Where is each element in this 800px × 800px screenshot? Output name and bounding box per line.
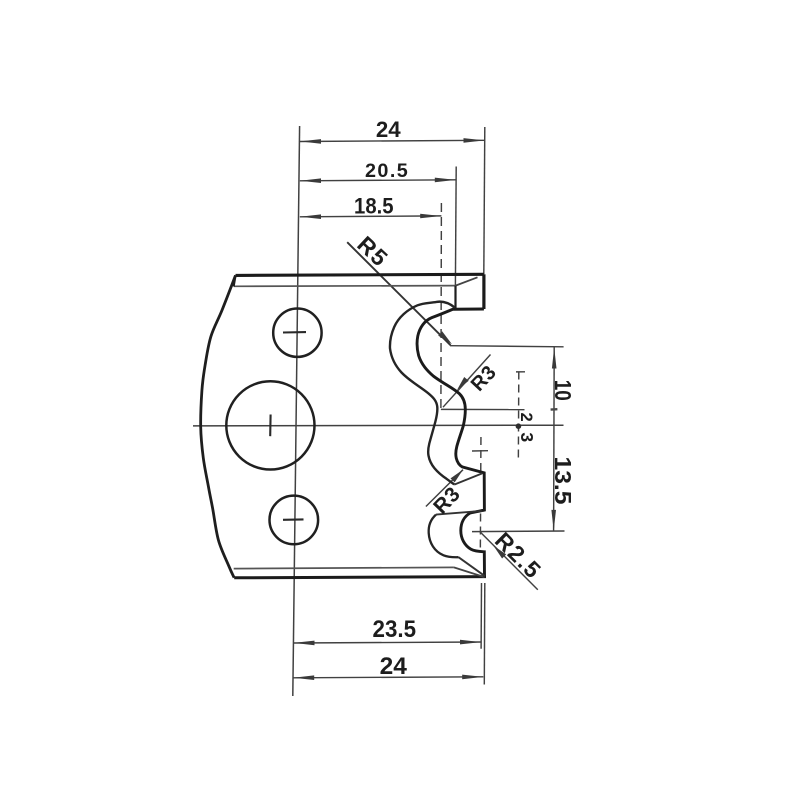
hole top circle: [273, 309, 321, 357]
svg-text:R3: R3: [467, 361, 501, 395]
node dot on centerline: [516, 423, 522, 429]
arrow dim 18.5 right: [420, 214, 441, 219]
profile back curve: [390, 302, 455, 485]
arrow leader R3 lower: [451, 470, 464, 483]
arrow leader R3 upper: [457, 377, 469, 390]
dimension 24 bottom extension right: [483, 583, 486, 685]
svg-text:20.5: 20.5: [365, 160, 409, 182]
part bottom bevel inner line: [234, 567, 454, 568]
profile front curve: [417, 309, 484, 577]
arrow dim 23.5 right: [460, 640, 481, 645]
part bottom edge: [234, 577, 486, 578]
svg-text:3: 3: [517, 432, 537, 442]
arrow dim 24 bottom right: [462, 675, 483, 680]
dimension 20.5 extension right: [454, 167, 457, 286]
dashed vertical x480 tab centerline: [480, 437, 482, 472]
svg-text:R5: R5: [352, 231, 393, 272]
svg-text:18.5: 18.5: [354, 194, 394, 219]
bottom right facet diagonal: [459, 557, 486, 576]
hole bottom circle: [270, 496, 319, 545]
arrow dim 20.5 left: [300, 178, 321, 183]
dimension 18.5 line: [300, 215, 442, 218]
top bevel diagonal left: [234, 275, 236, 286]
svg-text:24: 24: [380, 653, 408, 680]
svg-text:23.5: 23.5: [373, 616, 417, 643]
arrow dim 23.5 left: [294, 641, 315, 646]
part left edge arc: [201, 275, 236, 577]
leader R3 lower: [426, 470, 463, 507]
svg-text:2: 2: [517, 413, 535, 422]
tick y450 center B: [472, 450, 488, 452]
dimension 23.5 extension right: [480, 583, 482, 649]
dimension 24 top line: [300, 140, 485, 141]
top right block right vertical: [482, 274, 485, 309]
svg-text:24: 24: [376, 117, 401, 142]
centerline horizontal: [193, 424, 564, 427]
dimension 20.5 line: [300, 180, 456, 181]
centerline vertical: [293, 126, 300, 696]
arrow dim 13.5 bottom: [551, 510, 556, 531]
arrow dim 24 bottom left: [293, 675, 314, 680]
top right block bottom: [453, 308, 484, 311]
leader R5: [347, 242, 450, 345]
tab top facet diagonal: [454, 473, 482, 484]
svg-text:13.5: 13.5: [550, 457, 576, 505]
leader R3 upper: [443, 355, 491, 408]
arrow leader R5: [438, 331, 452, 344]
arrow dim 24 top left: [300, 139, 321, 144]
svg-text:10: 10: [550, 380, 576, 401]
hole bottom tick: [283, 518, 304, 520]
dimension 24 bottom line: [293, 677, 483, 678]
dimension 23.5 line: [293, 642, 481, 643]
arrow dim 10 top: [552, 348, 557, 369]
hole large circle: [226, 381, 314, 469]
svg-text:R2.5: R2.5: [490, 527, 547, 584]
arrow dim 18.5 left: [300, 214, 321, 219]
reference line A y409: [441, 408, 525, 410]
step extension line y346: [450, 346, 564, 347]
dashed vertical x518: [517, 372, 519, 462]
arrow dim 20.5 right: [435, 178, 456, 183]
top bevel diagonal right: [456, 277, 478, 285]
bottom bevel diagonal right: [454, 567, 485, 577]
leader R2.5: [480, 531, 538, 589]
dimension 18.5 extension right dashed: [440, 203, 443, 409]
part top edge: [236, 274, 484, 275]
tab bottom facet diagonal: [436, 511, 482, 515]
R2.5 center extension line: [472, 530, 565, 533]
arrow dim 24 top right: [464, 138, 485, 143]
hole top tick: [283, 331, 306, 333]
part top bevel inner line: [234, 285, 456, 288]
arrows: [293, 138, 556, 680]
cove back arc: [429, 515, 459, 558]
arrow leader R2.5: [494, 546, 507, 559]
dim line 10 and 13.5 vertical: [553, 347, 556, 531]
hole large vertical tick: [269, 415, 271, 437]
tick at 409 boundary: [551, 408, 558, 411]
dimension 24 top extension right: [484, 127, 485, 274]
top right block left vertical: [454, 286, 456, 309]
tick y371: [516, 371, 525, 373]
